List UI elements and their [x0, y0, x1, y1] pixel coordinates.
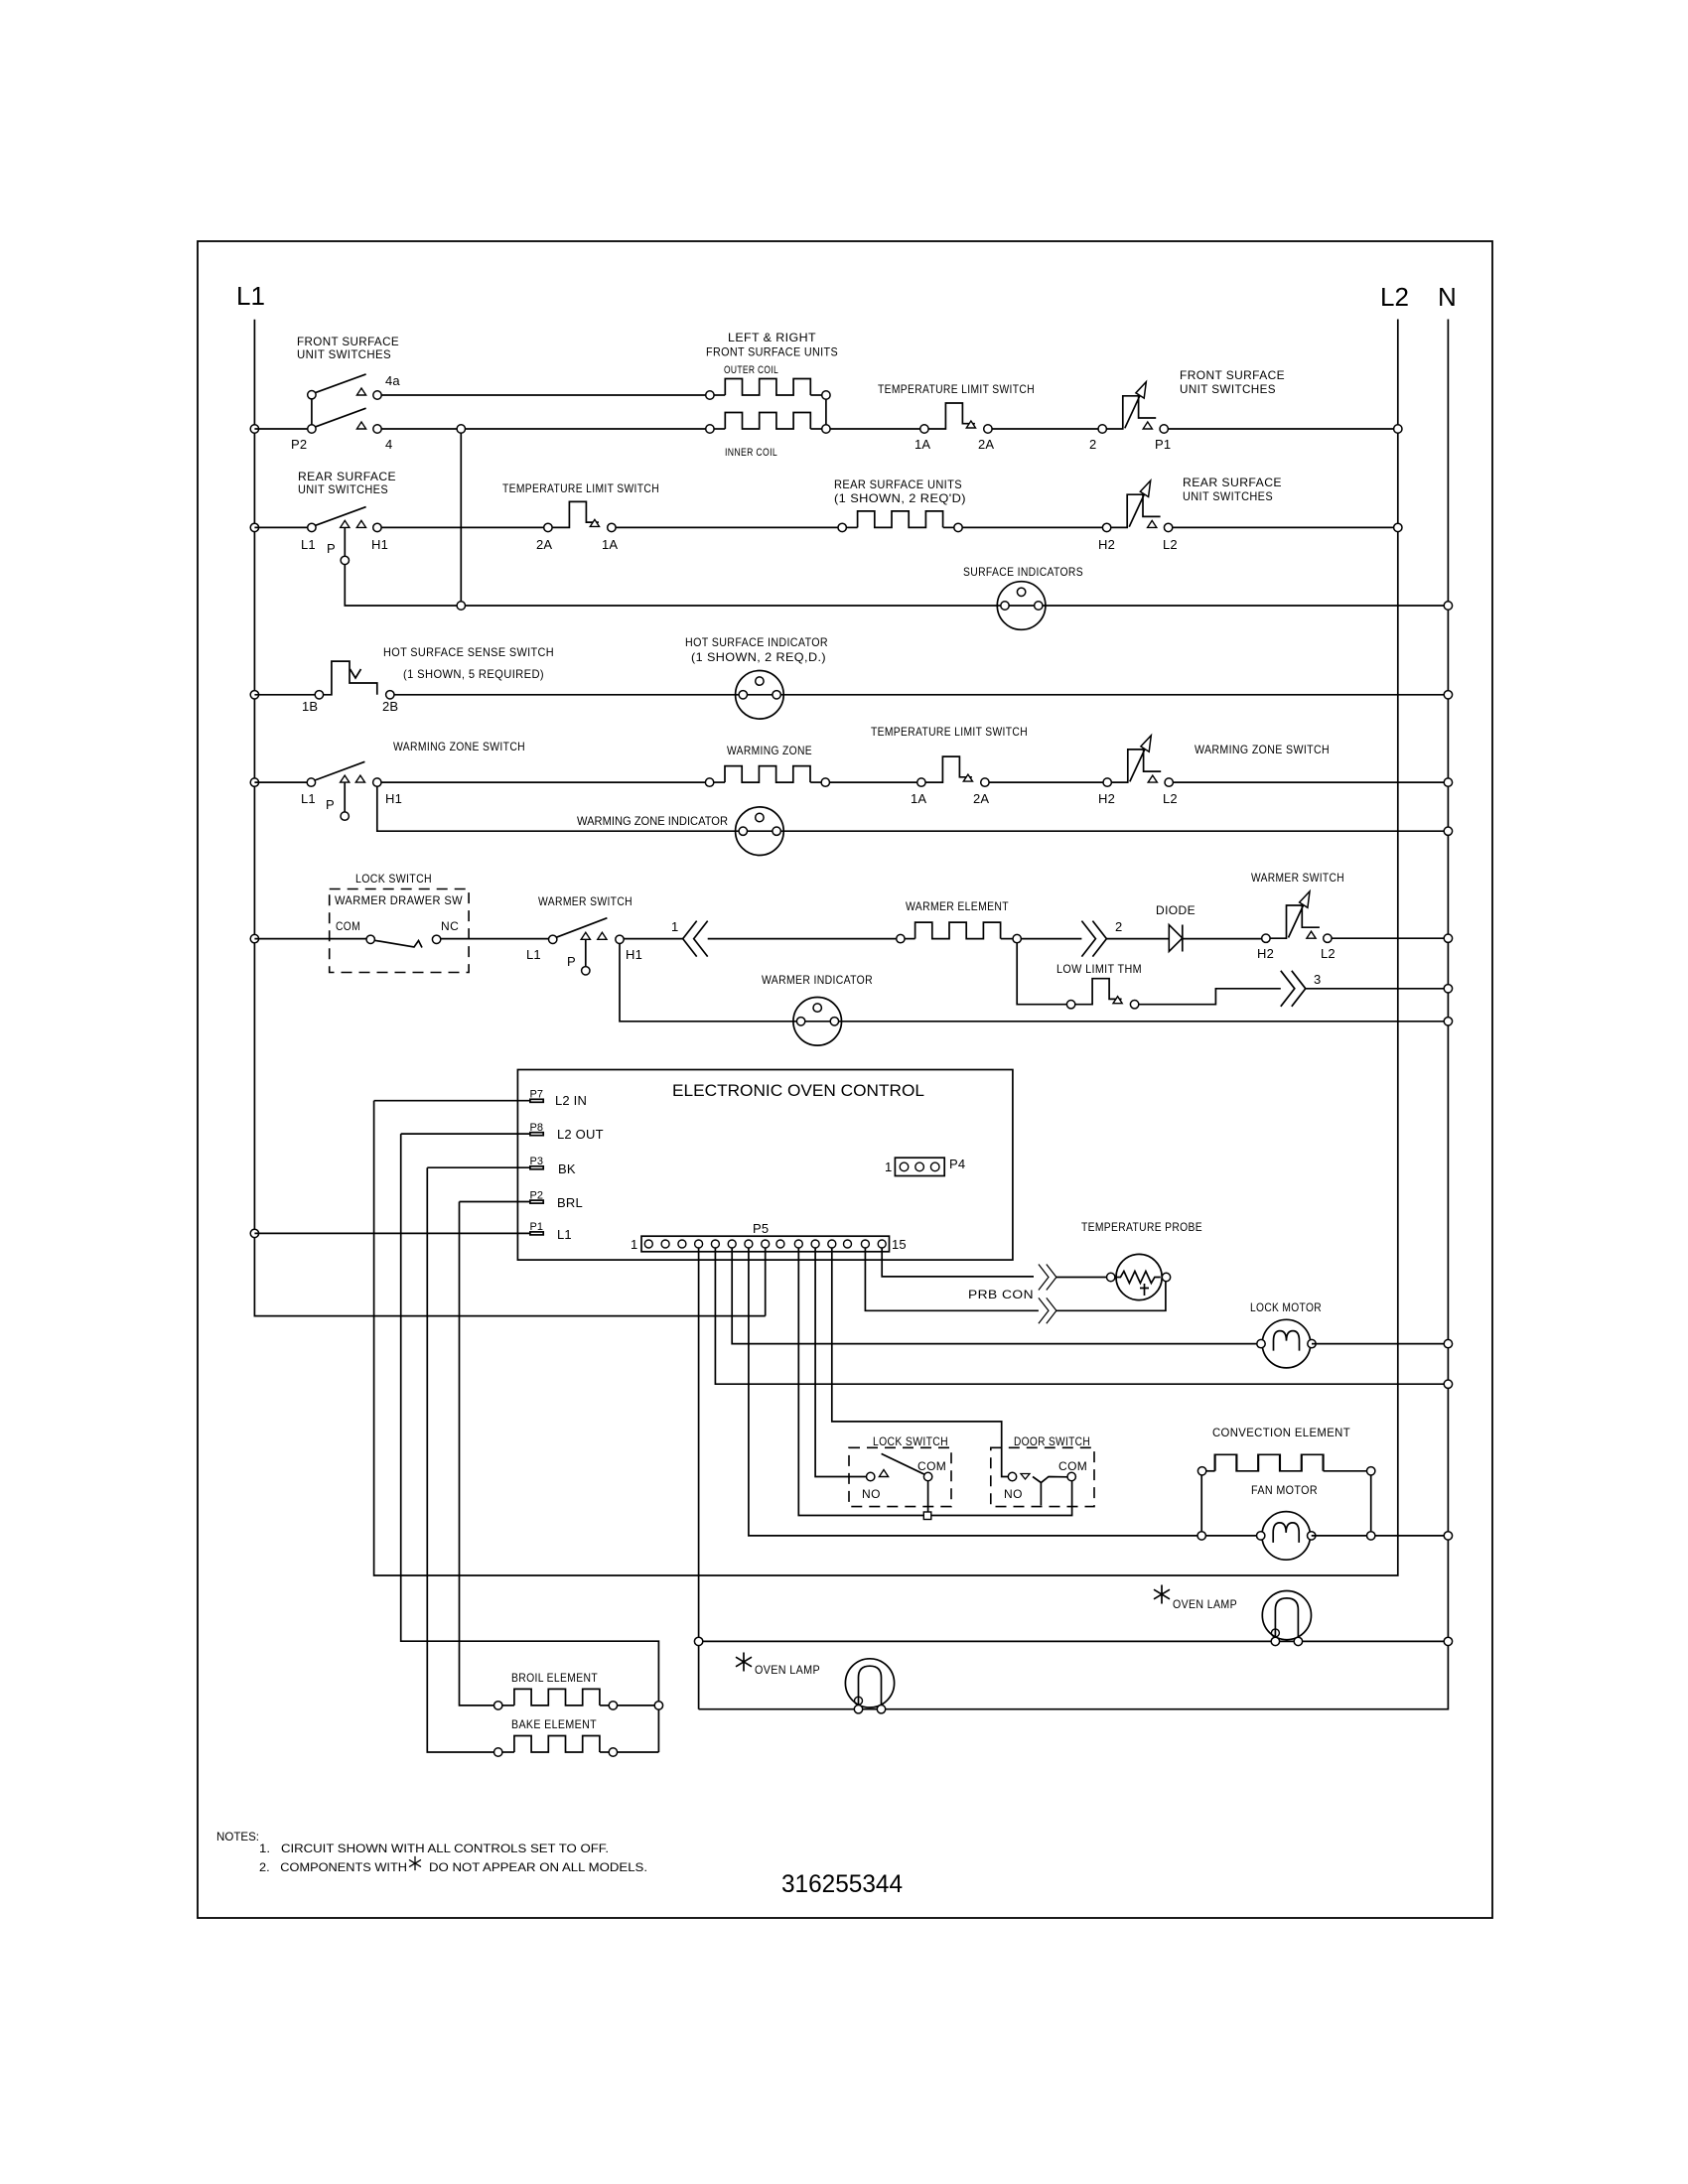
svg-text:L2: L2 [1163, 537, 1178, 552]
resistor rear surface units [838, 523, 846, 531]
switch rear surface right (thermal) [1102, 480, 1172, 532]
wire row7 left [254, 938, 366, 940]
svg-text:1. CIRCUIT SHOWN WITH ALL CO: 1. CIRCUIT SHOWN WITH ALL CONTROLS SET T… [259, 1842, 609, 1855]
svg-text:P8: P8 [530, 1122, 543, 1134]
svg-text:HOT SURFACE SENSE SWITCH: HOT SURFACE SENSE SWITCH [383, 645, 554, 659]
node N tap row4 [1444, 778, 1452, 786]
wire row7 H1 to chevron [624, 938, 683, 940]
connector chevron 1 [683, 921, 708, 957]
svg-text:P: P [327, 541, 336, 556]
node N tap warmer indicator [1444, 1018, 1452, 1025]
svg-text:2: 2 [1115, 919, 1122, 934]
svg-text:(1 SHOWN, 5 REQUIRED): (1 SHOWN, 5 REQUIRED) [403, 667, 544, 681]
svg-text:FRONT SURFACE: FRONT SURFACE [1180, 368, 1285, 382]
wire row1 left [254, 428, 307, 430]
wire oven lamp 1 rail [703, 1640, 1444, 1642]
wire row2 middle [616, 526, 838, 528]
label * oven lamp 2 [736, 1653, 752, 1672]
wire row2 to switch right [962, 526, 1102, 528]
svg-text:L2 OUT: L2 OUT [557, 1127, 604, 1142]
terminal P1 [530, 1232, 543, 1235]
svg-text:WARMER SWITCH: WARMER SWITCH [538, 894, 633, 908]
svg-text:LOCK SWITCH: LOCK SWITCH [355, 872, 432, 886]
node N tap fan [1444, 1532, 1452, 1540]
terminal P3 [530, 1166, 543, 1169]
connector chevron 2 [1081, 921, 1106, 957]
svg-text:(1 SHOWN, 2 REQ,D.): (1 SHOWN, 2 REQ,D.) [691, 650, 826, 664]
svg-text:316255344: 316255344 [781, 1870, 903, 1898]
wire broil right to junction [618, 1705, 659, 1706]
wire joining coils right [825, 399, 827, 425]
svg-text:BROIL ELEMENT: BROIL ELEMENT [511, 1671, 598, 1685]
wire pin12 to door NO [832, 1248, 1009, 1477]
wire P3 lead [427, 1166, 530, 1168]
wire diode to warmer switch [1183, 938, 1262, 940]
terminal P circle row7 [582, 967, 590, 975]
wire lock motor to N [1312, 1343, 1444, 1345]
switch P2 front surface (double pole) [308, 425, 316, 433]
resistor bake element [494, 1748, 502, 1756]
svg-text:TEMPERATURE LIMIT SWITCH: TEMPERATURE LIMIT SWITCH [878, 382, 1035, 396]
wire row2 to limit switch [381, 526, 544, 528]
node L1 tap P1 [250, 1229, 258, 1237]
wire convection left riser [1200, 1475, 1202, 1532]
svg-text:1: 1 [671, 919, 678, 934]
svg-text:ELECTRONIC OVEN CONTROL: ELECTRONIC OVEN CONTROL [672, 1081, 924, 1100]
svg-text:WARMER DRAWER SW: WARMER DRAWER SW [335, 893, 463, 907]
diode [1169, 925, 1183, 952]
switch warming zone left [307, 778, 315, 786]
connector chevron 3 [1281, 971, 1306, 1007]
node N tap pin5 [1444, 1380, 1452, 1388]
svg-text:HOT SURFACE INDICATOR: HOT SURFACE INDICATOR [685, 635, 828, 649]
svg-text:UNIT SWITCHES: UNIT SWITCHES [1180, 382, 1276, 396]
wire row1 main [381, 428, 706, 430]
node junction fan rail right [1367, 1532, 1375, 1540]
svg-text:2: 2 [1089, 437, 1096, 452]
node junction row1 to indicators [457, 425, 465, 433]
svg-text:REAR SURFACE UNITS: REAR SURFACE UNITS [834, 478, 962, 491]
svg-text:L2: L2 [1380, 282, 1409, 312]
wire P8 lead to elements [401, 1134, 659, 1752]
wire row4 right [1173, 781, 1444, 783]
svg-text:WARMER INDICATOR: WARMER INDICATOR [762, 973, 873, 987]
resistor warmer element [897, 934, 905, 942]
svg-text:P2: P2 [530, 1189, 543, 1201]
wire row4 to switch right [989, 781, 1103, 783]
lamp hot surface indicator [736, 671, 784, 720]
node N tap indicators [1444, 602, 1452, 610]
wire pin14 to probe connector [865, 1248, 1039, 1310]
svg-text:REAR SURFACE: REAR SURFACE [298, 470, 396, 483]
wire P8 lead [401, 1133, 530, 1135]
svg-text:P3: P3 [530, 1156, 543, 1167]
label * oven lamp 1 [1154, 1585, 1170, 1604]
node N tap lock motor [1444, 1339, 1452, 1347]
svg-text:1A: 1A [911, 791, 926, 806]
wire low limit to chevron 3 [1139, 989, 1281, 1005]
svg-text:2B: 2B [382, 699, 398, 714]
wire row4 left [254, 781, 307, 783]
switch warming zone right (thermal) [1103, 736, 1173, 787]
svg-text:L1: L1 [301, 537, 316, 552]
svg-text:2A: 2A [978, 437, 994, 452]
wire P arm row7 [585, 939, 587, 966]
wire PRB lower to probe right [1056, 1282, 1166, 1311]
svg-text:P7: P7 [530, 1089, 543, 1101]
node L2 tap row1 [1394, 425, 1402, 433]
node L1 tap row4 [250, 778, 258, 786]
wire H1 drop to indicator [377, 786, 1444, 831]
svg-text:L2 IN: L2 IN [555, 1093, 587, 1108]
node L1 tap row2 [250, 523, 258, 531]
svg-text:3: 3 [1314, 972, 1321, 987]
lamp warmer indicator [793, 998, 842, 1046]
node L1 tap row7 [250, 934, 258, 942]
border frame [198, 241, 1492, 1918]
svg-text:P1: P1 [530, 1221, 543, 1233]
node N tap oven lamp 1 [1444, 1637, 1452, 1645]
svg-text:P4: P4 [949, 1157, 965, 1171]
wire pin10 to com bus [798, 1248, 1071, 1516]
svg-text:UNIT SWITCHES: UNIT SWITCHES [1183, 489, 1273, 503]
wire row4 to limit switch [830, 781, 917, 783]
box lock switch (dashed) [849, 1447, 951, 1506]
motor fan motor [1257, 1512, 1316, 1561]
svg-text:L1: L1 [236, 281, 265, 311]
svg-text:BRL: BRL [557, 1195, 583, 1210]
switch hot surface sense [315, 691, 323, 699]
node junction fan rail left [1197, 1532, 1205, 1540]
wire row7 to warmer element [708, 938, 897, 940]
svg-text:L1: L1 [557, 1227, 572, 1242]
box electronic oven control [517, 1070, 1013, 1261]
pins P5 1-15 [644, 1240, 652, 1248]
svg-text:FAN MOTOR: FAN MOTOR [1251, 1483, 1318, 1497]
svg-text:H2: H2 [1098, 537, 1115, 552]
svg-text:1: 1 [885, 1160, 892, 1174]
wire P arm row4 [344, 782, 346, 812]
wire pin15 to probe connector [882, 1248, 1034, 1277]
svg-text:COM: COM [1058, 1459, 1087, 1473]
svg-text:L1: L1 [526, 947, 541, 962]
wire row2 left [254, 526, 307, 528]
svg-text:H1: H1 [385, 791, 402, 806]
svg-text:BK: BK [558, 1161, 576, 1176]
svg-text:REAR SURFACE: REAR SURFACE [1183, 476, 1282, 489]
lamp surface indicators [997, 582, 1046, 630]
svg-text:P1: P1 [1155, 437, 1171, 452]
wire row3 to lamp [394, 694, 1444, 696]
svg-text:NC: NC [441, 919, 459, 933]
terminal P circle row4 [341, 812, 349, 820]
lamp warming zone indicator [736, 807, 784, 856]
thermistor temperature probe [1116, 1254, 1162, 1299]
wire row7 through box [441, 938, 549, 940]
svg-text:4a: 4a [385, 373, 400, 388]
switch warmer drawer [366, 935, 374, 943]
wire bake right up to junction [618, 1751, 659, 1753]
svg-text:(1 SHOWN, 2 REQ'D): (1 SHOWN, 2 REQ'D) [834, 491, 966, 505]
svg-text:P2: P2 [291, 437, 307, 452]
motor lock motor [1257, 1319, 1316, 1368]
svg-text:UNIT SWITCHES: UNIT SWITCHES [297, 347, 391, 361]
switch rear surface left [308, 523, 316, 531]
svg-text:INNER COIL: INNER COIL [725, 447, 777, 459]
switch warmer left [549, 935, 557, 943]
thermostat low limit [1066, 979, 1138, 1009]
switch door [1008, 1472, 1016, 1480]
svg-text:1A: 1A [914, 437, 930, 452]
svg-text:L1: L1 [301, 791, 316, 806]
connector P4 [895, 1158, 944, 1175]
svg-text:UNIT SWITCHES: UNIT SWITCHES [298, 482, 388, 496]
wire L1 vertical bus [254, 320, 765, 1316]
wire row7 right [1332, 937, 1444, 939]
wire convection right riser [1370, 1475, 1372, 1532]
svg-text:2A: 2A [973, 791, 989, 806]
thermostat temperature limit switch row4 [917, 756, 989, 786]
wire P2 lead to broil [460, 1202, 494, 1706]
node N tap row3 [1444, 691, 1452, 699]
svg-text:H2: H2 [1098, 791, 1115, 806]
resistor convection element [1197, 1467, 1205, 1475]
terminal P7 [530, 1099, 543, 1102]
resistor warming zone [705, 778, 713, 786]
node L1 tap row1 [250, 425, 258, 433]
svg-text:WARMING ZONE SWITCH: WARMING ZONE SWITCH [1195, 743, 1330, 756]
wire P1 lead [254, 1232, 530, 1234]
wire N vertical bus [699, 320, 1449, 1709]
switch front surface right (thermal) [1098, 382, 1168, 434]
svg-text:FRONT SURFACE: FRONT SURFACE [297, 335, 399, 348]
svg-text:TEMPERATURE LIMIT SWITCH: TEMPERATURE LIMIT SWITCH [871, 725, 1028, 739]
wire row4 to coil [381, 781, 705, 783]
svg-text:NO: NO [862, 1487, 881, 1501]
wire pin4 down [698, 1248, 700, 1709]
svg-text:NO: NO [1004, 1487, 1023, 1501]
svg-text:WARMING ZONE SWITCH: WARMING ZONE SWITCH [393, 740, 525, 753]
node N tap warming indicator [1444, 827, 1452, 835]
wire H1 drop to warmer indicator [620, 944, 1444, 1022]
svg-text:LOCK SWITCH: LOCK SWITCH [873, 1434, 948, 1448]
svg-text:OUTER COIL: OUTER COIL [724, 364, 778, 376]
box warmer drawer sw (dashed) [330, 889, 469, 973]
svg-text:PRB CON: PRB CON [968, 1288, 1034, 1301]
wire chevron 3 to N [1306, 988, 1444, 990]
svg-text:WARMING ZONE: WARMING ZONE [727, 744, 812, 757]
wire low limit branch drop [1017, 943, 1066, 1005]
svg-text:FRONT SURFACE UNITS: FRONT SURFACE UNITS [706, 345, 838, 359]
svg-text:DIODE: DIODE [1156, 903, 1196, 917]
svg-text:P5: P5 [753, 1221, 769, 1236]
thermostat temperature limit switch row2 [544, 501, 616, 531]
svg-text:1A: 1A [602, 537, 618, 552]
svg-text:WARMER ELEMENT: WARMER ELEMENT [906, 899, 1009, 913]
svg-text:L2: L2 [1321, 946, 1336, 961]
wire row1 upper branch [381, 394, 706, 396]
box door switch (dashed) [991, 1447, 1094, 1506]
star in note 2 [409, 1856, 421, 1870]
lamp oven lamp 1 [1262, 1591, 1311, 1646]
svg-text:1B: 1B [302, 699, 318, 714]
node L1 tap row3 [250, 691, 258, 699]
svg-text:4: 4 [385, 437, 392, 452]
node junction indicator rail [457, 602, 465, 610]
wire row1 to switch2 [992, 428, 1098, 430]
wire pin5 to N [715, 1248, 1444, 1384]
node L2 tap row2 [1394, 523, 1402, 531]
wire row1 right [1168, 428, 1393, 430]
wire pin7 to fan rail [749, 1248, 1197, 1536]
wire P arm row2 [344, 527, 346, 556]
thermostat temperature limit switch row1 [920, 403, 992, 433]
connector chevron PRB upper [1039, 1265, 1056, 1291]
svg-text:LOCK MOTOR: LOCK MOTOR [1250, 1300, 1322, 1314]
svg-text:OVEN LAMP: OVEN LAMP [1173, 1597, 1237, 1611]
svg-text:WARMING ZONE INDICATOR: WARMING ZONE INDICATOR [577, 814, 728, 828]
resistor outer coil [706, 391, 714, 399]
svg-text:1: 1 [631, 1237, 637, 1252]
wire chevron 2 to diode [1106, 938, 1169, 940]
svg-text:OVEN LAMP: OVEN LAMP [755, 1663, 820, 1677]
node N tap row7 [1444, 934, 1452, 942]
wire P circle to indicator rail [345, 565, 457, 606]
wire row1 to limit switch [830, 428, 920, 430]
junction square lock com [923, 1512, 931, 1520]
wire PRB upper to probe [1056, 1277, 1107, 1279]
svg-text:NOTES:: NOTES: [216, 1830, 259, 1843]
wire row7 element to chevron 2 [1021, 938, 1081, 940]
svg-text:COM: COM [917, 1459, 946, 1473]
svg-text:LEFT & RIGHT: LEFT & RIGHT [728, 331, 816, 344]
terminal P2 [530, 1200, 543, 1203]
svg-text:15: 15 [892, 1237, 907, 1252]
svg-text:H1: H1 [371, 537, 388, 552]
svg-text:TEMPERATURE LIMIT SWITCH: TEMPERATURE LIMIT SWITCH [502, 481, 659, 495]
terminal P circle row2 [341, 556, 349, 564]
svg-text:2. COMPONENTS WITH: 2. COMPONENTS WITH [259, 1860, 407, 1874]
svg-text:H1: H1 [626, 947, 642, 962]
wire lock COM down [927, 1481, 929, 1512]
wire pin6 to lock motor [732, 1248, 1257, 1344]
wire row3 left [254, 694, 315, 696]
wire pin8 down [765, 1248, 767, 1316]
wire row2 right [1173, 526, 1394, 528]
svg-text:LOW LIMIT THM: LOW LIMIT THM [1056, 962, 1142, 976]
switch lock [867, 1472, 875, 1480]
svg-text:DOOR SWITCH: DOOR SWITCH [1014, 1434, 1090, 1448]
svg-text:WARMER SWITCH: WARMER SWITCH [1251, 871, 1344, 885]
wire indicator rail [466, 605, 1445, 607]
switch warmer right (thermal) [1262, 891, 1332, 943]
wire P7 lead [374, 1100, 530, 1102]
svg-text:L2: L2 [1163, 791, 1178, 806]
wire L2 vertical bus [374, 320, 1398, 1576]
svg-text:CONVECTION ELEMENT: CONVECTION ELEMENT [1212, 1426, 1350, 1439]
wire P3 lead to bake [427, 1167, 493, 1752]
svg-text:DO NOT APPEAR ON ALL MODELS.: DO NOT APPEAR ON ALL MODELS. [429, 1860, 647, 1874]
resistor broil element [494, 1702, 502, 1709]
svg-text:P: P [567, 954, 576, 969]
connector chevron PRB lower [1039, 1297, 1056, 1323]
lamp oven lamp 2 [845, 1659, 894, 1713]
svg-text:2A: 2A [536, 537, 552, 552]
svg-text:H2: H2 [1257, 946, 1274, 961]
svg-text:BAKE ELEMENT: BAKE ELEMENT [511, 1717, 597, 1731]
node junction pin4 lamp rail [694, 1637, 702, 1645]
wire P2 lead [460, 1201, 530, 1203]
wire pin11 to lock NO [815, 1248, 866, 1477]
terminal P8 [530, 1133, 543, 1136]
wire fan motor to N [1312, 1535, 1445, 1537]
svg-text:SURFACE INDICATORS: SURFACE INDICATORS [963, 565, 1083, 579]
svg-text:COM: COM [336, 919, 360, 933]
node N tap low limit [1444, 985, 1452, 993]
wire fan rail [1205, 1535, 1261, 1537]
node junction broil bake [654, 1702, 662, 1709]
resistor inner coil [706, 425, 714, 433]
wire junction down to indicator rail [460, 433, 462, 602]
svg-text:TEMPERATURE PROBE: TEMPERATURE PROBE [1081, 1220, 1202, 1234]
svg-text:P: P [326, 797, 335, 812]
svg-text:N: N [1438, 282, 1457, 312]
